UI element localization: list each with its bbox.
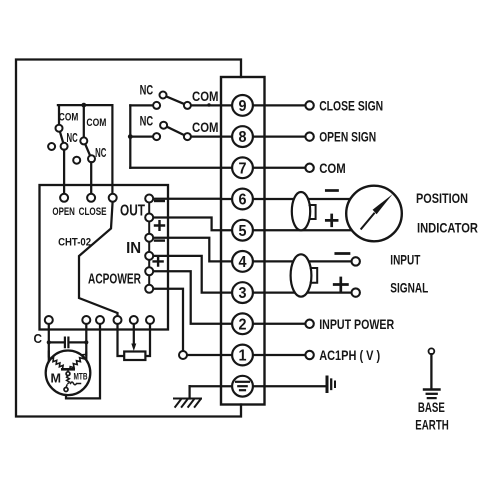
ACPOWER terminal b xyxy=(145,285,153,293)
limit switch S1 NC contact xyxy=(160,92,167,99)
feedback potentiometer body xyxy=(124,352,145,361)
wire: switch common bus vertical xyxy=(129,105,131,167)
svg-text:NC: NC xyxy=(67,130,79,145)
meter needle tail xyxy=(361,214,374,229)
minus sign input xyxy=(336,252,349,255)
close-switch NO contact (unconnected) xyxy=(73,157,80,164)
limit switch S2 COM contact xyxy=(184,133,191,140)
cam switch box top edge xyxy=(58,104,113,106)
svg-text:COM: COM xyxy=(192,119,219,135)
svg-text:INDICATOR: INDICATOR xyxy=(417,220,478,236)
pot terminal F xyxy=(146,316,154,324)
svg-text:SIGNAL: SIGNAL xyxy=(390,280,428,296)
junction on switch bus xyxy=(128,134,133,139)
svg-text:NC: NC xyxy=(140,113,154,129)
svg-text:COM: COM xyxy=(192,88,219,104)
wire: close switch to CLOSE terminal xyxy=(90,162,92,194)
chain link between output terminals xyxy=(148,199,150,289)
svg-text:INPUT POWER: INPUT POWER xyxy=(319,316,394,332)
limit switch S2 wire from pivot to bus xyxy=(130,135,153,137)
thermal protector horizontal squiggle xyxy=(71,382,81,385)
svg-text:COM: COM xyxy=(59,112,79,124)
wire: terminal 9 row (switch COM to CLOSE SIGN) xyxy=(190,104,305,106)
CLOSE SIGN terminal xyxy=(305,101,313,109)
node on AC1PH wire xyxy=(179,351,187,359)
wire: close-switch feed from junction dot xyxy=(83,105,85,137)
wire: open-switch feed from top edge xyxy=(58,105,60,125)
wire: terminal B down to motor right winding xyxy=(85,324,87,361)
base earth ground bars xyxy=(424,388,440,390)
minus sign meter xyxy=(326,189,337,192)
limit switch S2 pivot contact xyxy=(153,133,160,140)
open-switch COM contact xyxy=(56,125,63,132)
motor left winding zigzag xyxy=(49,357,65,370)
motor winding junction bar xyxy=(62,368,73,371)
pot terminal D xyxy=(114,316,122,324)
wire: ACPOWER-2 to node then terminal 1 AC1PH xyxy=(153,289,305,355)
pot wiper terminal E xyxy=(130,316,138,324)
OPEN SIGN terminal xyxy=(305,132,313,140)
AC1PH terminal xyxy=(305,351,313,359)
junction dot capacitor left xyxy=(47,340,51,344)
connector oval to position indicator xyxy=(292,192,310,230)
connector tab xyxy=(310,205,316,219)
svg-text:ACPOWER: ACPOWER xyxy=(88,272,141,288)
junction dot on cam box top edge xyxy=(81,103,86,108)
terminal 7 xyxy=(232,157,253,178)
limit switch S1 pivot contact xyxy=(153,102,160,109)
ground (hatched earth) xyxy=(174,399,201,407)
svg-text:1: 1 xyxy=(239,348,247,365)
plus sign meter xyxy=(326,215,337,226)
COM terminal xyxy=(305,164,313,172)
OUT- terminal xyxy=(145,195,153,203)
open-switch NC contact xyxy=(61,143,68,150)
plus sign input xyxy=(334,278,347,291)
terminal 9 xyxy=(232,95,253,116)
wire: terminal A down to motor left winding xyxy=(48,324,50,362)
input signal plus terminal xyxy=(352,288,360,296)
base earth lead xyxy=(430,354,432,388)
close-switch NC contact xyxy=(88,155,95,162)
svg-text:BASE: BASE xyxy=(418,399,445,415)
motor terminal C xyxy=(96,316,104,324)
wire: terminal E wiper with arrow xyxy=(133,324,135,344)
terminal 3 xyxy=(232,282,253,303)
wire: ACPOWER-1 staircase to terminal 2 INPUT POWER xyxy=(153,271,305,324)
terminal 1 xyxy=(232,345,253,366)
limit switch S1 COM contact xyxy=(184,102,191,109)
motor terminal A xyxy=(45,316,53,324)
plus sign IN+ xyxy=(154,257,163,265)
wire: earth terminal row xyxy=(190,385,327,387)
OUT+ terminal xyxy=(145,214,153,222)
terminal 8 xyxy=(232,126,253,147)
terminal 5 xyxy=(232,220,253,241)
motor junction stem and contact xyxy=(67,369,69,372)
input signal minus terminal xyxy=(352,257,360,265)
limit switch S1 (to terminal 9) wire from pivot to bus xyxy=(130,104,153,106)
wire: terminal D to pot left xyxy=(118,324,125,356)
wire: capacitor left lead xyxy=(49,341,64,343)
junction dot capacitor right xyxy=(84,340,88,344)
svg-text:POSITION: POSITION xyxy=(416,190,468,206)
cam switch box right edge wire down to CHT terminal xyxy=(111,105,113,194)
open-switch blade xyxy=(60,132,63,143)
svg-text:EARTH: EARTH xyxy=(415,416,449,432)
open-switch NO contact (unconnected) xyxy=(48,143,55,150)
motor right winding zigzag xyxy=(70,355,86,370)
meter needle head xyxy=(373,194,393,214)
plus sign OUT+ xyxy=(155,221,164,230)
motor M1 body xyxy=(46,351,91,396)
chassis ground symbol (right of earth terminal) xyxy=(326,377,329,392)
wire: internal link from cam box to feedback pot terminal xyxy=(79,202,118,316)
svg-text:NC: NC xyxy=(140,82,154,98)
svg-text:NC: NC xyxy=(95,145,107,160)
connector tab 2 xyxy=(311,268,317,283)
limit switch S2 NC contact xyxy=(160,122,167,129)
wire: IN+ staircase to terminal 3 and input signal xyxy=(153,256,351,293)
enclosure outline (big rectangle) xyxy=(16,60,241,417)
wire: capacitor right lead xyxy=(70,341,86,343)
wiper arrowhead xyxy=(131,344,136,352)
svg-text:5: 5 xyxy=(239,223,247,240)
CLOSE input terminal xyxy=(87,194,95,202)
terminal 4 xyxy=(232,251,253,272)
close-switch blade xyxy=(85,144,90,156)
svg-text:9: 9 xyxy=(239,98,247,115)
wire: IN- staircase to terminal 4 and input signal xyxy=(153,238,351,262)
wire stubs inside motor to windings xyxy=(49,352,87,357)
ACPOWER terminal a xyxy=(145,267,153,275)
minus sign OUT- xyxy=(155,200,164,202)
wire: earth drop to ground symbol xyxy=(188,386,190,398)
cam feed terminal xyxy=(109,194,117,202)
motor terminal B xyxy=(82,316,90,324)
wire: terminal 7 row (switch common bus to COM) xyxy=(130,167,305,169)
svg-text:7: 7 xyxy=(239,160,247,177)
connector oval to input signal xyxy=(291,254,312,296)
earth terminal xyxy=(232,376,253,397)
svg-text:M: M xyxy=(51,371,62,386)
svg-text:6: 6 xyxy=(239,192,247,209)
INPUT POWER terminal xyxy=(305,320,313,328)
svg-text:8: 8 xyxy=(239,129,247,146)
svg-text:CLOSE SIGN: CLOSE SIGN xyxy=(319,98,383,114)
terminal block TB1 outline xyxy=(221,77,265,405)
base earth stud xyxy=(429,348,435,354)
IN+ terminal xyxy=(145,252,153,260)
minus sign IN- xyxy=(155,239,164,241)
capacitor C plates xyxy=(65,338,69,348)
wire: OUT- to terminal 6 and position indicator xyxy=(153,198,351,201)
limit switch S1 blade xyxy=(166,96,184,104)
svg-text:OPEN: OPEN xyxy=(52,206,75,218)
OPEN input terminal xyxy=(60,194,68,202)
svg-text:MTB: MTB xyxy=(74,372,88,382)
wire: terminal 8 row (switch COM to OPEN SIGN) xyxy=(190,135,305,137)
IN- terminal xyxy=(145,234,153,242)
svg-text:3: 3 xyxy=(239,285,247,302)
svg-text:4: 4 xyxy=(239,254,247,271)
wire: terminal F to pot right xyxy=(145,324,150,356)
svg-text:COM: COM xyxy=(319,160,346,176)
terminal 6 xyxy=(232,189,253,210)
close-switch COM contact xyxy=(80,137,87,144)
motor bottom contact xyxy=(64,388,68,392)
wire: open switch to OPEN terminal xyxy=(63,150,65,194)
svg-text:CHT-02: CHT-02 xyxy=(58,237,91,249)
svg-text:INPUT: INPUT xyxy=(390,252,420,268)
controller CHT-02 box xyxy=(40,185,169,330)
wire: motor bottom loop to terminal C xyxy=(66,324,100,398)
svg-text:IN: IN xyxy=(126,240,141,257)
svg-text:OUT: OUT xyxy=(120,202,145,219)
wire: OUT+ staircase to terminal 5 and meter xyxy=(153,218,351,231)
svg-text:2: 2 xyxy=(239,316,247,333)
limit switch S2 blade xyxy=(167,127,184,135)
svg-text:OPEN SIGN: OPEN SIGN xyxy=(319,129,376,145)
thermal protector squiggle xyxy=(67,376,70,384)
svg-text:COM: COM xyxy=(86,117,106,129)
position indicator meter body xyxy=(346,186,402,242)
svg-text:AC1PH ( V ): AC1PH ( V ) xyxy=(319,347,380,363)
svg-text:CLOSE: CLOSE xyxy=(79,206,107,218)
svg-text:C: C xyxy=(34,331,43,346)
terminal 2 xyxy=(232,313,253,334)
stray junction dot near COM S1 xyxy=(207,103,210,106)
